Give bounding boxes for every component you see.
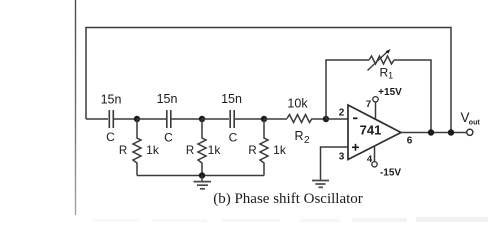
wire node 1 to C2 (137, 118, 166, 120)
op-amp U1 741 (339, 105, 413, 163)
svg-text:R: R (186, 145, 194, 157)
wire bottom rail joining resistor bottoms (137, 175, 264, 177)
supply -15V pin 4 (367, 146, 402, 178)
svg-text:R: R (119, 145, 127, 157)
svg-text:4: 4 (367, 154, 373, 165)
wire C1 to node 1 (114, 118, 137, 120)
node output feedback junction (448, 129, 454, 135)
wire R1 to output (394, 60, 431, 133)
svg-text:1k: 1k (208, 143, 222, 157)
wire pin 3 to ground (321, 147, 349, 180)
terminal Vout (461, 110, 481, 135)
svg-text:R: R (248, 145, 256, 157)
ground (bottom rail) (194, 176, 212, 189)
resistor R1 (variable, feedback) (368, 49, 395, 81)
wire node 2 to C3 (202, 118, 229, 120)
node 1 junction (134, 116, 140, 122)
svg-text:out: out (469, 120, 481, 127)
wire output (401, 132, 467, 134)
svg-text:(b) Phase shift Oscillator: (b) Phase shift Oscillator (213, 191, 363, 207)
svg-text:1k: 1k (146, 143, 160, 157)
svg-text:C: C (229, 131, 238, 145)
resistor R2 10k (264, 97, 326, 147)
resistor R 1k (third) (248, 119, 286, 176)
wire input segment to C1 (86, 118, 108, 120)
svg-text:6: 6 (407, 136, 413, 147)
supply +15V pin 7 (366, 87, 402, 119)
wire outer feedback loop from output to first capacitor (86, 28, 451, 133)
node 2 junction (199, 116, 205, 122)
svg-text:+15V: +15V (378, 87, 402, 98)
svg-text:10k: 10k (287, 97, 308, 111)
svg-text:15n: 15n (101, 93, 122, 107)
wire C3 to node 3 (235, 118, 264, 120)
ground (pin 3) (312, 181, 329, 188)
svg-text:C: C (106, 130, 115, 144)
node inverting input junction (323, 116, 329, 122)
svg-text:-15V: -15V (380, 167, 401, 178)
resistor R 1k (first) (119, 119, 160, 176)
faint cropped text at bottom edge (92, 217, 488, 222)
capacitor C1 15n (101, 93, 122, 145)
node 3 junction (261, 116, 267, 122)
svg-text:15n: 15n (157, 92, 178, 106)
svg-text:2: 2 (339, 108, 345, 119)
node bottom rail junction (199, 172, 205, 178)
svg-text:15n: 15n (221, 92, 242, 106)
wire feedback branch up to R1 (326, 60, 369, 119)
wire inverting node to op-amp pin 2 (326, 118, 348, 120)
wire C2 to node 2 (172, 118, 203, 120)
svg-text:C: C (164, 131, 173, 145)
capacitor C2 15n (157, 92, 178, 145)
capacitor C3 15n (221, 92, 242, 145)
resistor R 1k (second) (186, 119, 221, 176)
node output R1 junction (428, 129, 434, 135)
svg-text:741: 741 (360, 123, 382, 138)
svg-text:3: 3 (339, 152, 345, 163)
svg-text:1k: 1k (273, 143, 287, 157)
svg-text:7: 7 (366, 99, 371, 110)
